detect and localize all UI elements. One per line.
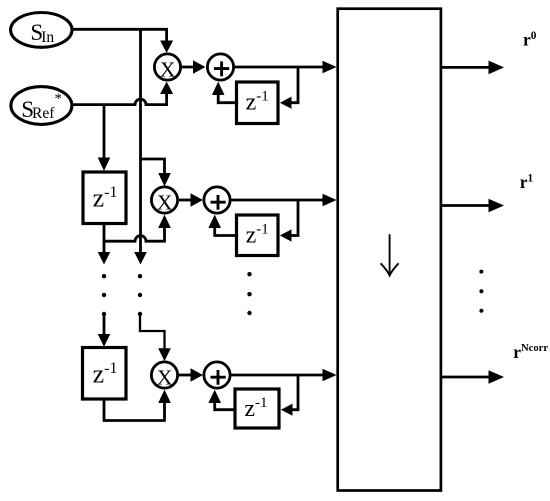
- svg-text:z-1: z-1: [93, 184, 118, 213]
- svg-text:*: *: [55, 91, 63, 107]
- svg-text:z-1: z-1: [246, 222, 269, 249]
- svg-text:z-1: z-1: [93, 360, 118, 389]
- svg-text:X: X: [157, 365, 173, 389]
- svg-text:r1: r1: [520, 172, 534, 192]
- svg-text:X: X: [160, 57, 176, 81]
- svg-text:rNcorr: rNcorr: [513, 342, 548, 362]
- svg-text:SRef: SRef: [21, 97, 55, 122]
- svg-text:z-1: z-1: [246, 89, 269, 116]
- svg-text:X: X: [157, 190, 173, 214]
- svg-text:z-1: z-1: [244, 395, 267, 422]
- svg-text:SIn: SIn: [30, 20, 54, 46]
- svg-text:r0: r0: [523, 30, 537, 50]
